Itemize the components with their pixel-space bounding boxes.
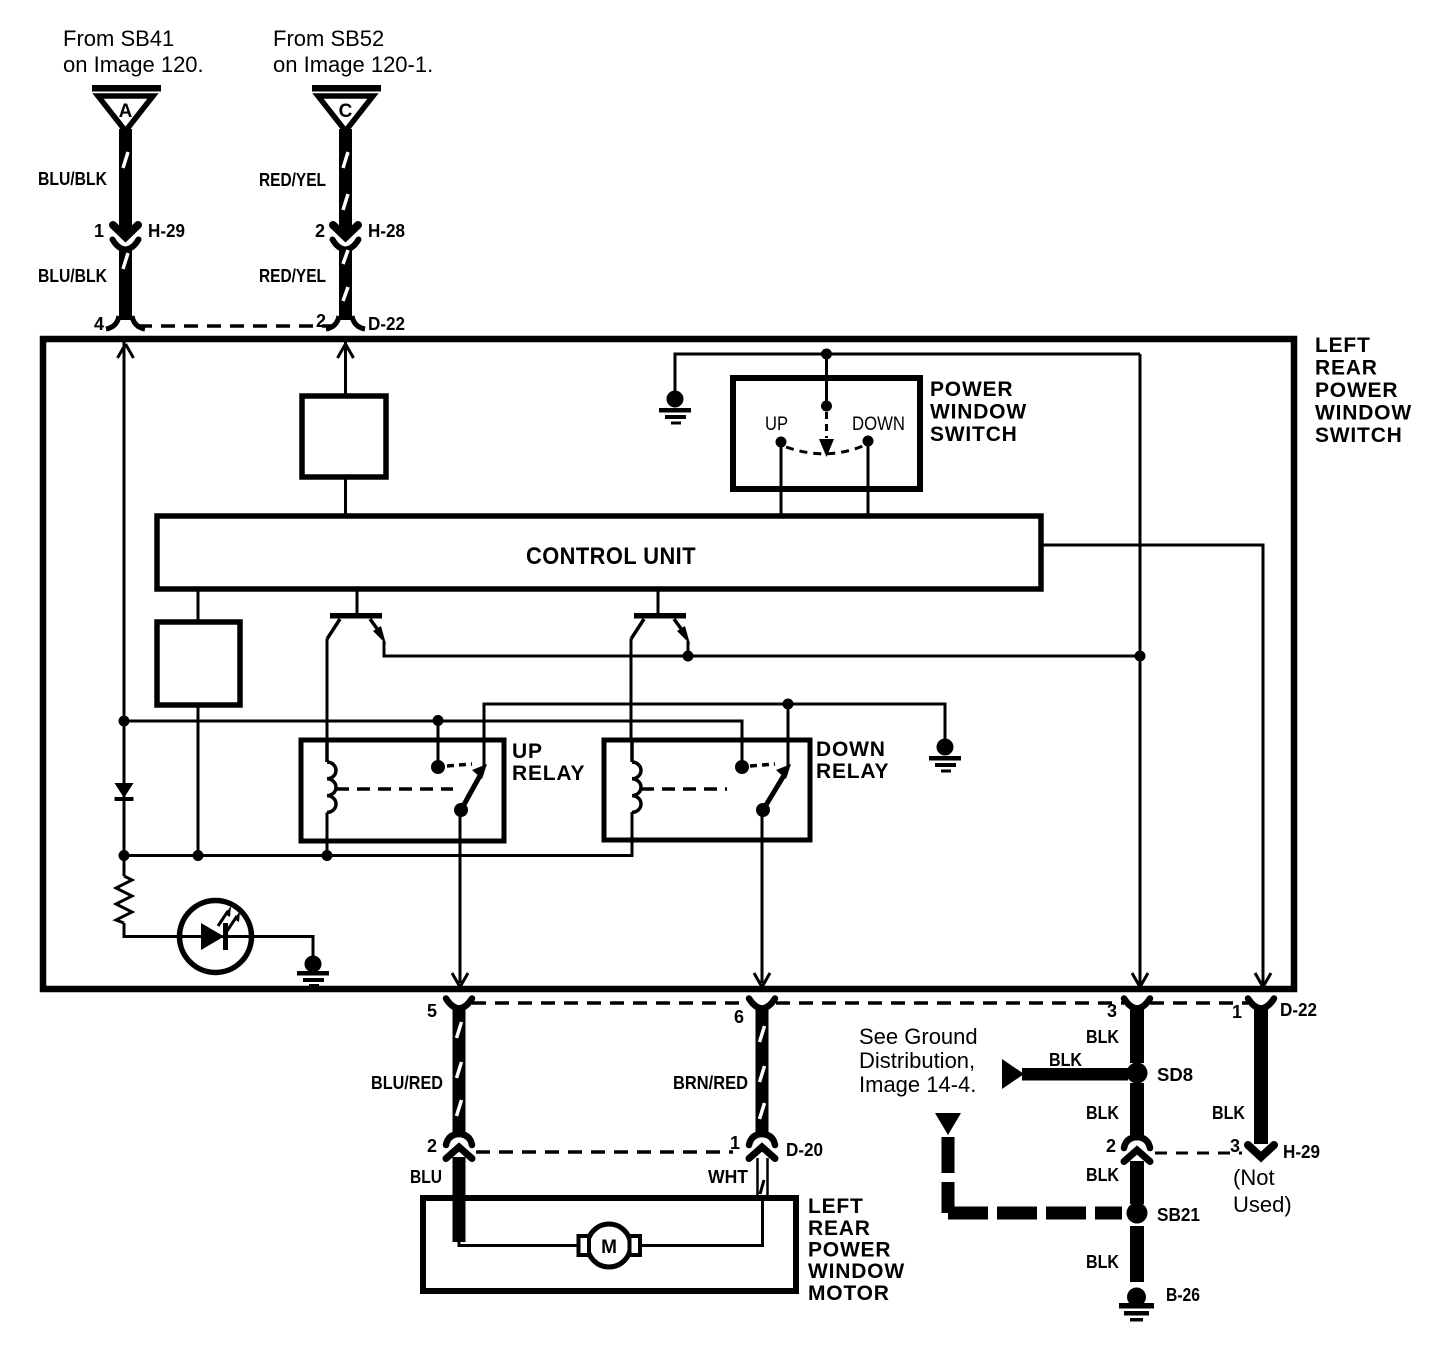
label BLK (pin3): [1086, 1027, 1119, 1047]
connector pin 5 socket: [446, 999, 472, 1009]
pin 1 label (D-22 bottom): [1232, 1002, 1242, 1022]
connector triangle C: [312, 85, 381, 131]
DOWN relay lever: [756, 704, 791, 817]
svg-text:UP: UP: [512, 740, 543, 763]
DOWN relay box: [604, 740, 810, 840]
svg-text:SWITCH: SWITCH: [1315, 424, 1403, 447]
label H-29 (bottom): [1283, 1142, 1320, 1162]
LED indicator lamp: [180, 901, 252, 973]
label SB21: [1157, 1205, 1200, 1225]
node switch common: [821, 401, 832, 412]
connector pin 1 socket (D-22): [1248, 999, 1274, 1009]
label POWER WINDOW SWITCH: [930, 378, 1027, 446]
ground G1 (near power window switch): [659, 391, 691, 425]
svg-text:M: M: [601, 1237, 617, 1258]
note: (Not Used): [1233, 1165, 1292, 1217]
label BLK (SB21-B26): [1086, 1252, 1119, 1272]
ground G2 (relay rail): [929, 739, 961, 773]
svg-text:WINDOW: WINDOW: [1315, 402, 1412, 425]
label BLK (right): [1212, 1103, 1245, 1123]
wire Q2 collector to DOWN relay coil: [630, 639, 633, 742]
svg-text:SWITCH: SWITCH: [930, 423, 1018, 446]
svg-text:3: 3: [1230, 1136, 1240, 1156]
node junction top rail to switch: [821, 349, 832, 360]
label RED/YEL (upper C): [259, 170, 326, 190]
label CONTROL UNIT: [526, 543, 696, 570]
svg-text:BLK: BLK: [1086, 1103, 1119, 1123]
svg-text:POWER: POWER: [1315, 379, 1398, 402]
label LEFT REAR POWER WINDOW MOTOR: [808, 1195, 905, 1305]
pin 6 label: [734, 1007, 744, 1027]
svg-text:1: 1: [730, 1133, 740, 1153]
svg-text:3: 3: [1107, 1001, 1117, 1021]
label H-29: [148, 221, 185, 241]
pin 2 label (D-22 top): [316, 311, 326, 331]
pin 3 label (H-29): [1230, 1136, 1240, 1156]
component box U2 (unlabeled square left): [157, 622, 240, 705]
svg-text:From SB52: From SB52: [273, 26, 384, 51]
wire BLK pin2 to SB21: [1130, 1161, 1144, 1204]
svg-text:BLK: BLK: [1086, 1165, 1119, 1185]
wire RED/YEL from C to H-28: [339, 129, 352, 232]
svg-text:BLK: BLK: [1086, 1027, 1119, 1047]
label H-28: [368, 221, 405, 241]
svg-text:H-29: H-29: [1283, 1142, 1320, 1162]
svg-text:5: 5: [427, 1001, 437, 1021]
diode D1 (left branch): [115, 783, 134, 801]
svg-text:RELAY: RELAY: [512, 762, 585, 785]
UP relay box: [301, 740, 504, 841]
svg-text:BLK: BLK: [1049, 1050, 1082, 1070]
svg-text:WINDOW: WINDOW: [808, 1260, 905, 1283]
svg-text:SD8: SD8: [1157, 1065, 1193, 1085]
wire WHT inside motor box: [640, 1198, 763, 1246]
wire emitter rail: [384, 650, 1140, 656]
svg-text:WINDOW: WINDOW: [930, 401, 1027, 424]
svg-text:WHT: WHT: [708, 1167, 748, 1187]
wire U2 to bottom rail: [197, 705, 200, 856]
transistor Q1 (UP driver): [327, 589, 386, 652]
control unit box: [157, 516, 1041, 589]
svg-text:Image 14-4.: Image 14-4.: [859, 1072, 976, 1097]
DOWN relay mechanical link dashed: [641, 787, 727, 791]
pin 1 label (H-29): [94, 221, 104, 241]
svg-text:1: 1: [1232, 1002, 1242, 1022]
arrow feed to SD8: [1002, 1059, 1128, 1089]
node switch UP contact: [776, 437, 787, 448]
svg-text:BLK: BLK: [1086, 1252, 1119, 1272]
svg-text:C: C: [339, 101, 353, 122]
UP relay coil: [327, 740, 336, 856]
label D-20: [786, 1140, 823, 1160]
svg-text:B-26: B-26: [1166, 1285, 1200, 1305]
node U2 bottom junction: [193, 850, 204, 861]
pin 2 label (H-28): [315, 221, 325, 241]
connector pin 2 (D-20): [446, 1134, 472, 1159]
connector boundary D-22 (top dashed): [138, 324, 332, 328]
svg-text:BLU/BLK: BLU/BLK: [38, 266, 107, 286]
wire control unit right to D-22 pin 1: [1041, 545, 1271, 987]
svg-text:BLU/RED: BLU/RED: [371, 1073, 443, 1093]
svg-text:From SB41: From SB41: [63, 26, 174, 51]
svg-text:Used): Used): [1233, 1192, 1292, 1217]
svg-text:DOWN: DOWN: [816, 738, 886, 761]
wire bottom rail (y855): [124, 812, 632, 856]
connector pin 2 (ground lead): [1124, 1137, 1150, 1162]
wire BLU/RED pin5 to pin2: [453, 1007, 466, 1135]
connector H-28 (C wire): [333, 225, 359, 250]
DOWN relay coil: [632, 740, 641, 812]
label BLK (SD8-pin2): [1086, 1103, 1119, 1123]
pin 4 label: [94, 314, 104, 334]
node UP relay coil bottom junction: [322, 850, 333, 861]
label DOWN RELAY: [816, 738, 889, 783]
pin 5 label: [427, 1001, 437, 1021]
wire right vertical (top rail down to pin 3): [1132, 354, 1148, 987]
svg-text:6: 6: [734, 1007, 744, 1027]
svg-text:2: 2: [315, 221, 325, 241]
pin 1 label (D-20): [730, 1133, 740, 1153]
wire resistor to LED: [124, 923, 181, 937]
svg-text:2: 2: [427, 1136, 437, 1156]
wire pin2 entry with up arrow: [338, 342, 354, 396]
svg-text:Distribution,: Distribution,: [859, 1048, 975, 1073]
svg-text:SB21: SB21: [1157, 1205, 1200, 1225]
DOWN relay fixed contact: [735, 760, 775, 774]
svg-text:LEFT: LEFT: [1315, 334, 1371, 357]
ground G3 (LED): [297, 956, 329, 988]
wire U1 to control unit: [344, 477, 347, 516]
connector boundary D-22 (bottom dashed): [472, 1001, 1248, 1005]
label BLU: [410, 1167, 442, 1187]
connector H-29 (A wire): [113, 225, 139, 250]
connector H-29 pin 3 plug: [1248, 1145, 1274, 1157]
svg-text:BRN/RED: BRN/RED: [673, 1073, 748, 1093]
connector pin 1 (D-20): [749, 1134, 775, 1159]
label D-22 (top): [368, 314, 405, 334]
wire UP contact to control unit: [780, 447, 783, 516]
switch actuator dashed arrow: [819, 412, 834, 457]
pin 2 label (H-29 area): [1106, 1136, 1116, 1156]
connector triangle A: [92, 85, 161, 131]
svg-text:CONTROL UNIT: CONTROL UNIT: [526, 543, 696, 570]
label LEFT REAR POWER WINDOW SWITCH: [1315, 334, 1412, 447]
label D-22 (bottom): [1280, 1000, 1317, 1020]
svg-text:H-28: H-28: [368, 221, 405, 241]
svg-text:MOTOR: MOTOR: [808, 1282, 890, 1305]
wire BRN/RED pin6 to pin1: [756, 1007, 769, 1135]
wire relay output rail (y704) to ground: [484, 704, 945, 766]
svg-text:UP: UP: [765, 414, 788, 435]
node UP relay contact feed junction: [433, 715, 444, 726]
wire control unit to U2: [197, 589, 200, 622]
wire BLK SD8 to pin 2: [1130, 1083, 1144, 1139]
label BLK (pin2-SB21): [1086, 1165, 1119, 1185]
note: From SB41 on Image 120.: [63, 26, 204, 77]
wire DOWN relay pivot to pin 6: [754, 810, 770, 987]
svg-text:1: 1: [94, 221, 104, 241]
svg-text:2: 2: [316, 311, 326, 331]
label BLU/BLK (upper A): [38, 169, 107, 189]
svg-text:BLU/BLK: BLU/BLK: [38, 169, 107, 189]
pin 3 label (D-22 bottom): [1107, 1001, 1117, 1021]
node SB21: [1127, 1203, 1148, 1224]
connector pin 3 socket: [1124, 999, 1150, 1009]
wire BLU inside motor box: [453, 1198, 579, 1246]
node left rail junction: [119, 716, 130, 727]
node Q2 emitter junction: [683, 651, 694, 662]
left rear power window switch outer box: [43, 339, 1294, 989]
svg-text:BLK: BLK: [1212, 1103, 1245, 1123]
svg-text:D-20: D-20: [786, 1140, 823, 1160]
wire LED to ground: [250, 937, 313, 958]
label BLK (SD8 feed): [1049, 1050, 1082, 1070]
wire RED/YEL from H-28 to pin 2: [326, 248, 365, 329]
svg-text:RELAY: RELAY: [816, 760, 889, 783]
wire UP relay pivot to pin 5: [452, 810, 468, 987]
label B-26: [1166, 1285, 1200, 1305]
svg-text:4: 4: [94, 314, 104, 334]
wire BLK pin3 to SD8: [1130, 1007, 1144, 1063]
note: See Ground Distribution Image 14-4.: [859, 1024, 978, 1097]
svg-text:D-22: D-22: [1280, 1000, 1317, 1020]
wire BLU pin2 to motor: [453, 1157, 466, 1200]
wire BLK SB21 to B-26: [1130, 1226, 1144, 1282]
wire DOWN contact to control unit: [867, 446, 870, 516]
svg-text:2: 2: [1106, 1136, 1116, 1156]
svg-text:See Ground: See Ground: [859, 1024, 978, 1049]
label WHT: [708, 1167, 748, 1187]
svg-text:DOWN: DOWN: [852, 414, 905, 435]
motor M1: [579, 1224, 641, 1267]
svg-text:LEFT: LEFT: [808, 1195, 864, 1218]
wire BLU/BLK from H-29 to pin 4: [106, 248, 145, 329]
UP relay fixed contact: [431, 719, 472, 774]
arrow feed to SB21 (dashed): [935, 1113, 1122, 1213]
label BLU/RED: [371, 1073, 443, 1093]
connector boundary D-20 dashed: [476, 1150, 733, 1154]
wire top rail to power window switch and right: [675, 354, 1140, 392]
label SD8: [1157, 1065, 1193, 1085]
svg-text:POWER: POWER: [930, 378, 1013, 401]
wire BLK pin1 to H-29 pin3: [1254, 1009, 1268, 1144]
svg-text:RED/YEL: RED/YEL: [259, 170, 326, 190]
wire pin4 entry with up arrow: [118, 342, 134, 876]
power window switch box: [733, 378, 920, 489]
UP relay mechanical link dashed: [336, 787, 453, 791]
switch dashed arc: [786, 446, 863, 454]
node left rail to bottom rail junction: [119, 850, 130, 861]
node switch DOWN contact: [863, 436, 874, 447]
wire BLU/BLK from A to H-29: [119, 129, 132, 232]
svg-text:H-29: H-29: [148, 221, 185, 241]
UP relay lever: [454, 764, 487, 817]
label DOWN: [852, 414, 905, 435]
pin 2 label (D-20): [427, 1136, 437, 1156]
wire Q1 collector to UP relay coil: [326, 639, 329, 742]
svg-text:REAR: REAR: [1315, 357, 1378, 380]
label BLU/BLK (lower A): [38, 266, 107, 286]
label UP: [765, 414, 788, 435]
svg-text:(Not: (Not: [1233, 1165, 1275, 1190]
svg-text:on Image 120.: on Image 120.: [63, 52, 204, 77]
svg-text:RED/YEL: RED/YEL: [259, 266, 326, 286]
motor box: [423, 1198, 796, 1291]
node emitter rail right junction: [1135, 651, 1146, 662]
svg-text:BLU: BLU: [410, 1167, 442, 1187]
svg-text:on Image 120-1.: on Image 120-1.: [273, 52, 433, 77]
connector pin 6 socket: [749, 999, 775, 1009]
ground B-26: [1119, 1288, 1154, 1322]
transistor Q2 (DOWN driver): [631, 589, 690, 656]
label RED/YEL (lower C): [259, 266, 326, 286]
label BRN/RED: [673, 1073, 748, 1093]
svg-text:D-22: D-22: [368, 314, 405, 334]
svg-text:A: A: [119, 101, 133, 122]
svg-text:POWER: POWER: [808, 1239, 891, 1262]
node DOWN relay lever feed junction: [783, 699, 794, 710]
node SD8: [1127, 1063, 1148, 1084]
note: From SB52 on Image 120-1.: [273, 26, 433, 77]
svg-text:REAR: REAR: [808, 1217, 871, 1240]
connector boundary H-29 dashed: [1155, 1152, 1242, 1155]
resistor R1 (LED series): [116, 876, 132, 923]
wire WHT pin1 to motor: [758, 1158, 768, 1198]
wire rail to UP relay contact (y721): [124, 721, 742, 767]
component box U1 (unlabeled square upper): [302, 396, 386, 477]
wire switch common: [825, 354, 828, 401]
label UP RELAY: [512, 740, 585, 785]
